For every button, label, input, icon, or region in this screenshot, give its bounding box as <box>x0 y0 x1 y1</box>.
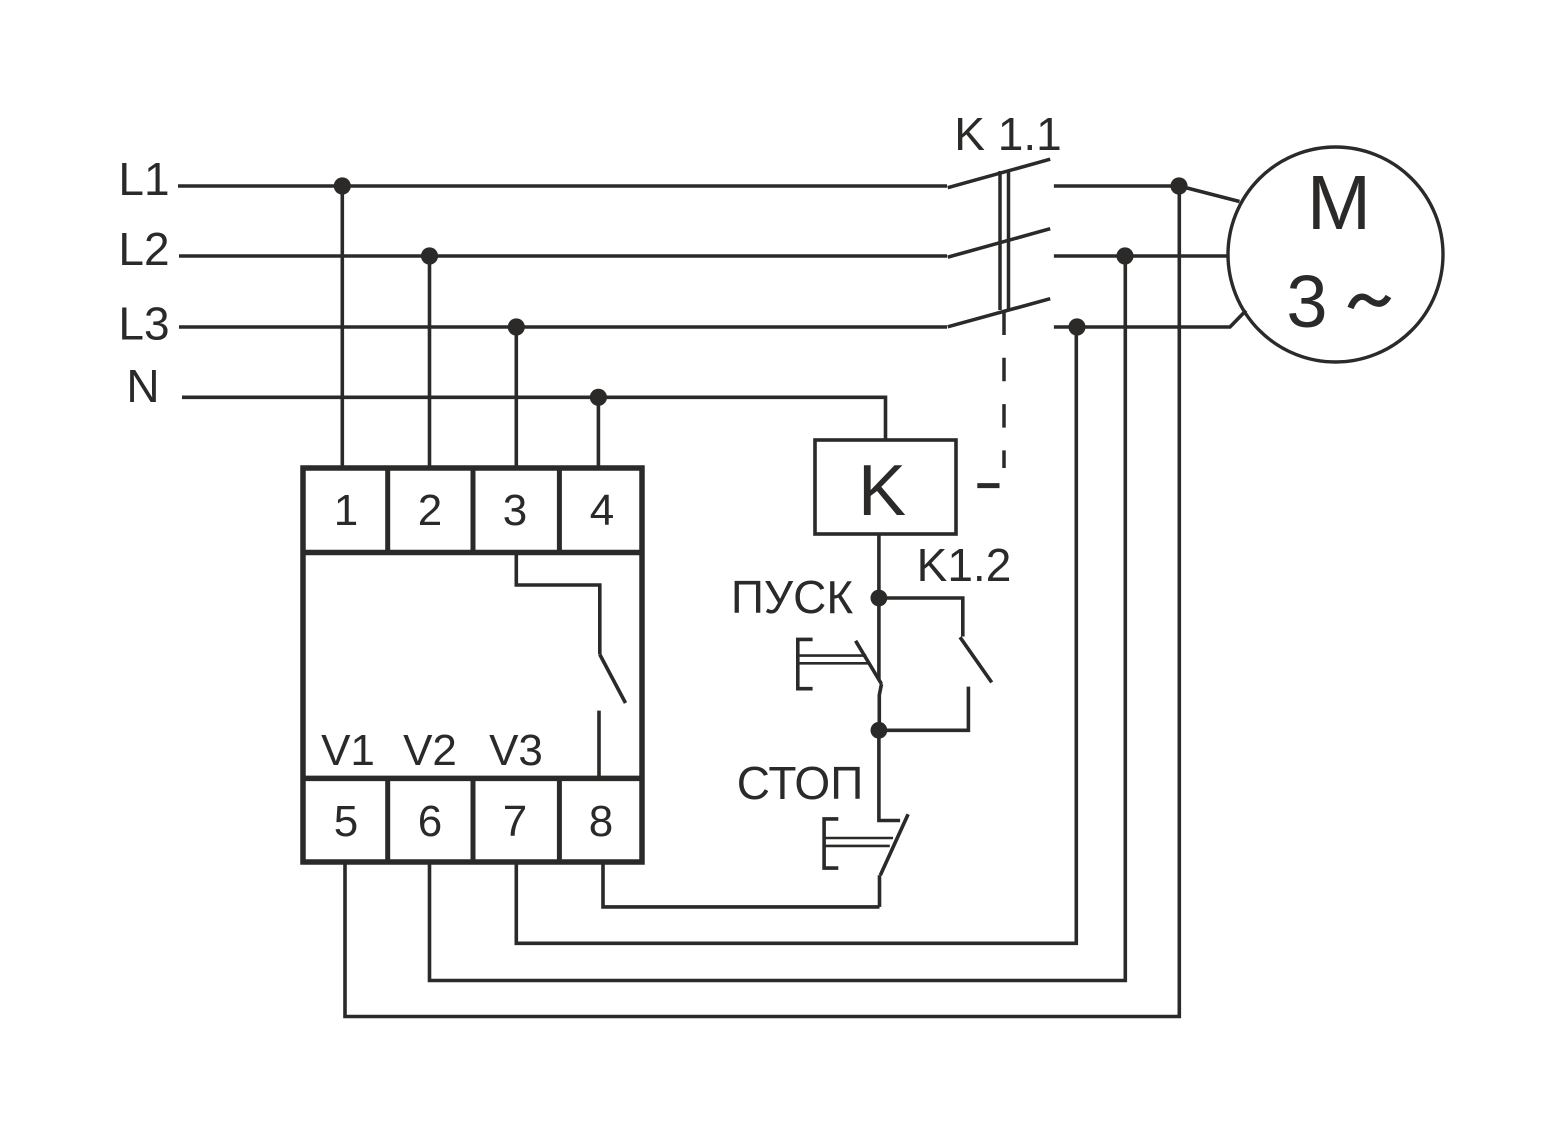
auxiliary contact K1.2 top wire <box>879 598 963 637</box>
svg-text:V3: V3 <box>489 726 543 775</box>
node motor phase 3 junction <box>1068 318 1085 335</box>
svg-text:L1: L1 <box>118 153 169 205</box>
contactor contact K1.1 pole 1 blade <box>948 159 1050 188</box>
node start top <box>871 590 888 607</box>
relay terminal box <box>303 468 642 862</box>
wire L1 <box>178 184 947 188</box>
svg-text:K: K <box>858 451 906 531</box>
motor M1 circle <box>1228 147 1443 362</box>
svg-text:V1: V1 <box>321 726 375 775</box>
internal relay switch wire <box>516 553 600 655</box>
svg-text:3: 3 <box>503 486 527 535</box>
contactor coil K <box>815 440 956 534</box>
STOP button shaft <box>824 837 893 840</box>
PUSK button shaft <box>798 654 866 657</box>
wire L2 to terminal 2 <box>428 256 432 468</box>
K1.1 mechanical linkage bars <box>998 171 1002 310</box>
K1.2 bottom wire <box>879 687 969 731</box>
svg-text:N: N <box>126 360 159 412</box>
wire K1.1 pole 2 output <box>1054 254 1228 258</box>
svg-text:2: 2 <box>418 486 442 535</box>
terminal row bottom separator <box>303 776 642 782</box>
svg-text:6: 6 <box>418 797 442 846</box>
wire K1.1 pole 3 output <box>1054 311 1246 328</box>
svg-text:V2: V2 <box>403 726 457 775</box>
K1.2 blade <box>960 637 992 682</box>
terminal divider 6|7 <box>471 778 476 862</box>
svg-text:ПУСК: ПУСК <box>731 571 854 623</box>
wire terminal 7 to motor phase 3 <box>516 327 1076 943</box>
contactor contact K1.1 pole 3 blade <box>948 299 1050 327</box>
node N junction <box>590 389 607 406</box>
svg-text:8: 8 <box>589 797 613 846</box>
wire N to terminal 4 <box>597 397 601 468</box>
svg-text:4: 4 <box>590 486 614 535</box>
K1.1 linkage dashed line <box>1002 312 1006 469</box>
wire K coil to start node <box>877 534 881 598</box>
tilde motor <box>1351 297 1389 309</box>
terminal divider 1|2 <box>385 468 390 553</box>
wire below PUSK blade <box>879 684 881 730</box>
svg-text:3: 3 <box>1286 260 1327 343</box>
svg-text:K 1.1: K 1.1 <box>954 108 1061 160</box>
wire K1.1 pole 1 output <box>1054 184 1179 188</box>
linkage dash mark <box>977 483 999 488</box>
node L1 junction <box>334 177 351 194</box>
terminal divider 7|8 <box>557 778 562 862</box>
contactor contact K1.1 pole 2 blade <box>948 229 1050 258</box>
terminal divider 3|4 <box>557 468 562 553</box>
internal relay switch blade <box>600 655 626 704</box>
wire L3 to terminal 3 <box>514 327 518 468</box>
internal relay switch lower contact <box>597 711 601 779</box>
PUSK button bracket <box>798 639 813 688</box>
wire L3 <box>179 325 947 329</box>
wire to stop button <box>879 730 900 820</box>
node motor phase 2 junction <box>1116 247 1133 264</box>
svg-text:1: 1 <box>334 486 358 535</box>
wire terminal 6 to motor phase 2 <box>430 256 1126 981</box>
node start bottom <box>871 722 888 739</box>
terminal divider 2|3 <box>471 468 476 553</box>
wire L2 <box>179 254 947 258</box>
wire terminal 5 to motor phase 1 <box>345 186 1179 1017</box>
svg-text:L3: L3 <box>118 298 169 350</box>
wire start node down <box>877 598 881 680</box>
svg-text:СТОП: СТОП <box>737 757 864 809</box>
wire L1 to terminal 1 <box>340 186 344 468</box>
node motor phase 1 junction <box>1170 177 1187 194</box>
terminal divider 5|6 <box>385 778 390 862</box>
wire below STOP blade <box>878 875 882 907</box>
stop button STOP blade <box>880 814 908 875</box>
wire to motor terminal 1 <box>1179 186 1239 202</box>
svg-text:5: 5 <box>334 797 358 846</box>
wire terminal 8 to stop button <box>603 862 880 907</box>
node L3 junction <box>508 318 525 335</box>
wire N <box>182 397 886 440</box>
node L2 junction <box>421 247 438 264</box>
svg-text:M: M <box>1307 160 1371 246</box>
terminal row top separator <box>303 550 642 556</box>
svg-text:L2: L2 <box>118 223 169 275</box>
STOP button bracket <box>824 819 838 868</box>
svg-text:K1.2: K1.2 <box>917 539 1012 591</box>
start button PUSK blade <box>856 641 882 684</box>
svg-text:7: 7 <box>503 797 527 846</box>
